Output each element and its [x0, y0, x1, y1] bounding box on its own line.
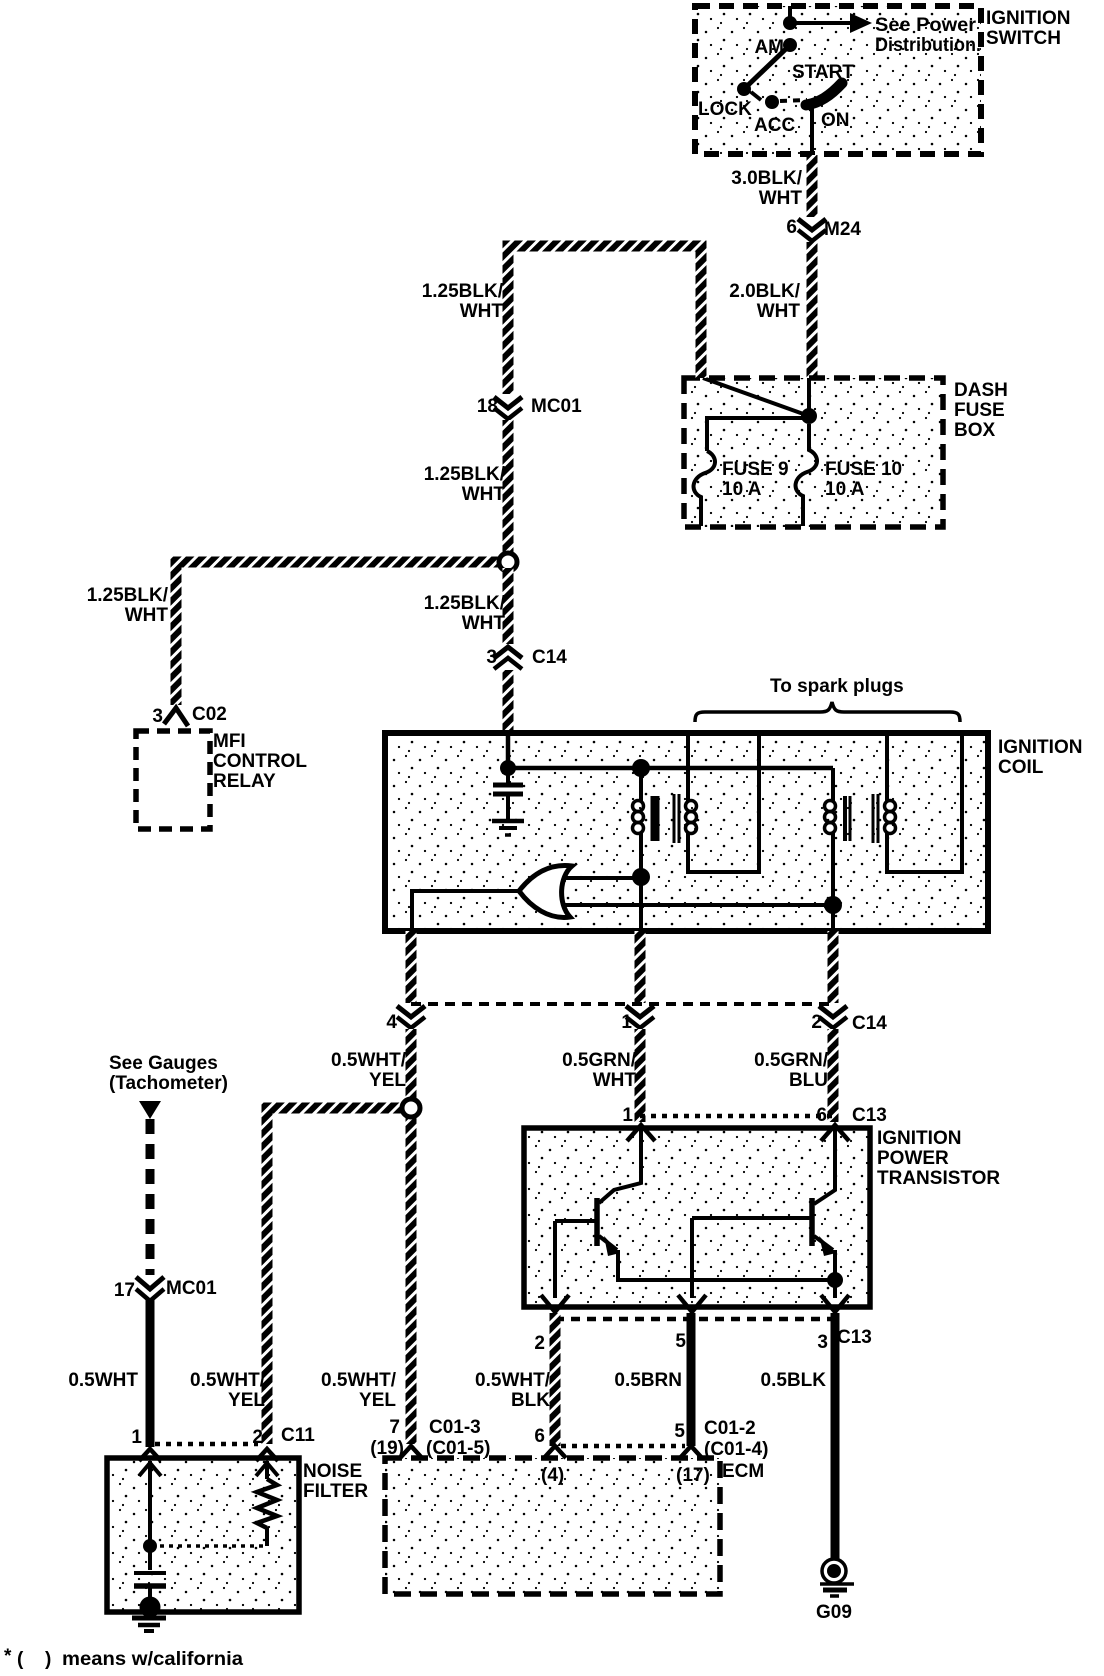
pin 1 arrow into box	[627, 1125, 655, 1141]
wire 0.5GRN/WHT	[635, 1029, 646, 1122]
svg-text:WHT: WHT	[125, 605, 169, 626]
svg-text:1.25BLK/: 1.25BLK/	[424, 593, 506, 614]
wire 3.0BLK/WHT	[807, 155, 818, 217]
wire 0.5WHT	[146, 1300, 155, 1447]
svg-text:IGNITION: IGNITION	[986, 8, 1070, 29]
wire pin 2 base lead	[553, 1221, 557, 1298]
pin 2 arrow out of box	[541, 1295, 569, 1312]
connector MC01 pin 17	[136, 1277, 164, 1289]
svg-text:C01-2: C01-2	[704, 1418, 756, 1439]
connector MC01 pin 18	[494, 397, 522, 408]
wire dotted ECM row	[561, 1444, 685, 1449]
svg-text:(: (	[17, 1649, 24, 1670]
svg-text:SWITCH: SWITCH	[986, 28, 1061, 49]
transistor Q1 base bar	[594, 1198, 600, 1246]
svg-text:0.5GRN/: 0.5GRN/	[562, 1050, 637, 1071]
svg-text:C02: C02	[192, 704, 227, 725]
svg-text:RELAY: RELAY	[213, 771, 276, 792]
svg-text:3: 3	[486, 647, 497, 668]
wire feed diagonal inside fuse box	[703, 378, 809, 416]
pin 5 arrow out of box	[678, 1295, 706, 1312]
connector C14 pin 1	[626, 1006, 654, 1017]
wire B+ into coil	[506, 734, 511, 768]
svg-text:WHT: WHT	[462, 613, 506, 634]
capacitor filter	[148, 1546, 152, 1570]
svg-text:1.25BLK/: 1.25BLK/	[422, 281, 504, 302]
svg-text:6: 6	[534, 1426, 545, 1447]
svg-text:YEL: YEL	[359, 1390, 396, 1411]
svg-text:WHT: WHT	[759, 188, 803, 209]
wire 1.25BLK/WHT main run from fuse box	[508, 246, 701, 394]
svg-text:POWER: POWER	[877, 1148, 949, 1169]
wire 0.5BLK	[831, 1313, 840, 1560]
svg-text:C01-3: C01-3	[429, 1417, 481, 1438]
connector C11 pin 1	[139, 1449, 161, 1461]
node emitter junction	[827, 1272, 843, 1288]
svg-text:0.5WHT/: 0.5WHT/	[475, 1370, 551, 1391]
ground noise filter	[132, 1616, 166, 1621]
ignition coil box	[385, 733, 988, 931]
ignition power transistor box	[524, 1128, 870, 1307]
svg-text:3: 3	[817, 1332, 828, 1353]
svg-text:0.5WHT/: 0.5WHT/	[190, 1370, 266, 1391]
svg-text:3: 3	[152, 706, 163, 727]
wire to power distribution	[790, 21, 850, 25]
svg-text:6: 6	[786, 217, 797, 238]
svg-text:See Power: See Power	[875, 15, 977, 36]
wire Q2 base	[692, 1216, 810, 1220]
svg-text:10 A: 10 A	[825, 479, 865, 500]
svg-text:ECM: ECM	[722, 1461, 764, 1482]
svg-text:BOX: BOX	[954, 420, 996, 441]
pin 6 arrow into box	[821, 1125, 849, 1141]
wire branch to noise filter	[267, 1108, 406, 1444]
transformer T2 primary winding	[831, 768, 835, 801]
node ACC terminal	[765, 95, 779, 109]
node ground blob	[140, 1597, 161, 1618]
svg-text:TRANSISTOR: TRANSISTOR	[877, 1168, 1000, 1189]
svg-text:(C01-4): (C01-4)	[704, 1439, 768, 1460]
ground condenser	[492, 819, 524, 824]
svg-text:1.25BLK/: 1.25BLK/	[424, 464, 506, 485]
svg-text:Distribution.: Distribution.	[875, 35, 981, 56]
wire into ignition coil	[503, 670, 514, 734]
wire from M24 into box	[807, 378, 811, 416]
wire 1.25BLK/WHT to junction	[503, 420, 514, 557]
wire 0.5WHT/BLK	[550, 1313, 561, 1446]
ground G09	[822, 1559, 846, 1583]
svg-text:(Tachometer): (Tachometer)	[109, 1073, 228, 1094]
connector C14 pin 4	[397, 1006, 425, 1017]
svg-text:To spark plugs: To spark plugs	[770, 676, 904, 697]
svg-text:YEL: YEL	[228, 1390, 265, 1411]
transistor Q1 emitter	[599, 1236, 617, 1250]
svg-text:1: 1	[131, 1427, 142, 1448]
wire Q1 collector	[599, 1130, 641, 1203]
svg-text:C11: C11	[281, 1425, 315, 1446]
svg-text:means w/california: means w/california	[62, 1649, 243, 1670]
wire switch wiper AM-LOCK	[744, 45, 790, 89]
svg-text:1: 1	[621, 1012, 632, 1033]
fuse FUSE 9 10A	[694, 451, 715, 526]
transformer T2 secondary winding	[885, 733, 889, 801]
svg-text:(17): (17)	[676, 1465, 710, 1486]
svg-text:C14: C14	[852, 1013, 887, 1034]
connector ECM pin 7 (19) C01-3	[400, 1446, 422, 1458]
wire START-ON contact arc	[806, 83, 842, 105]
capacitor condenser	[506, 768, 510, 783]
svg-text:WHT: WHT	[462, 484, 506, 505]
connector C14 pin 2	[819, 1006, 847, 1017]
MFI control relay box	[136, 731, 210, 829]
svg-text:0.5WHT/: 0.5WHT/	[321, 1370, 397, 1391]
svg-text:YEL: YEL	[369, 1070, 406, 1091]
svg-text:0.5BLK: 0.5BLK	[761, 1370, 827, 1391]
wire lock detent tick	[751, 92, 761, 100]
svg-text:WHT: WHT	[757, 301, 801, 322]
svg-text:(19): (19)	[370, 1438, 404, 1459]
connector M24 pin 6	[798, 219, 826, 230]
wire T1 primary to coil pin 1	[639, 877, 643, 931]
svg-text:LOCK: LOCK	[698, 99, 752, 120]
svg-text:COIL: COIL	[998, 757, 1044, 778]
rotor crescent	[519, 865, 572, 917]
svg-text:18: 18	[477, 396, 498, 417]
node filter junction	[143, 1539, 157, 1553]
connector ECM pin 5 (17) C01-2	[680, 1446, 702, 1458]
svg-text:0.5GRN/: 0.5GRN/	[754, 1050, 829, 1071]
resistor filter	[257, 1479, 277, 1528]
svg-text:5: 5	[675, 1331, 686, 1352]
svg-text:10 A: 10 A	[722, 479, 762, 500]
ignition switch box	[695, 6, 981, 154]
transistor Q2 base bar	[809, 1198, 815, 1246]
svg-text:FILTER: FILTER	[303, 1481, 368, 1502]
svg-text:NOISE: NOISE	[303, 1461, 362, 1482]
svg-text:17: 17	[114, 1280, 135, 1301]
connector ECM pin 6 (4)	[544, 1446, 566, 1458]
wire coil pin 4 lead	[406, 931, 417, 1003]
svg-text:MC01: MC01	[166, 1278, 217, 1299]
svg-text:WHT: WHT	[460, 301, 504, 322]
svg-text:WHT: WHT	[593, 1070, 637, 1091]
svg-text:2: 2	[534, 1333, 545, 1354]
svg-text:0.5BRN: 0.5BRN	[614, 1370, 682, 1391]
wire coil pin 2 lead	[828, 931, 839, 1003]
wire B+ bus	[508, 766, 833, 771]
svg-text:): )	[45, 1649, 51, 1670]
svg-text:G09: G09	[816, 1602, 852, 1623]
wire 2.0BLK/WHT	[807, 242, 818, 378]
node battery junction	[783, 16, 797, 30]
wire branch to MFI relay	[176, 562, 503, 705]
svg-text:MFI: MFI	[213, 731, 246, 752]
connector C14 pin 3	[494, 647, 522, 658]
svg-text:5: 5	[674, 1421, 685, 1442]
arrow from gauges	[139, 1101, 161, 1119]
svg-text:*: *	[4, 1646, 12, 1667]
wire 0.5WHT/YEL from pin 4	[406, 1029, 417, 1444]
pin 3 arrow out of box	[821, 1295, 849, 1312]
brace to spark plugs	[695, 702, 960, 722]
svg-text:FUSE 9: FUSE 9	[722, 459, 789, 480]
svg-text:2.0BLK/: 2.0BLK/	[729, 281, 800, 302]
wire 0.5GRN/BLU	[828, 1029, 839, 1122]
svg-text:FUSE: FUSE	[954, 400, 1005, 421]
svg-text:1: 1	[622, 1105, 633, 1126]
svg-text:MC01: MC01	[531, 396, 582, 417]
wire Q2 collector	[814, 1130, 835, 1204]
connector C11 pin 2	[256, 1449, 278, 1461]
node T2 primary bottom	[824, 896, 842, 914]
svg-text:2: 2	[811, 1012, 822, 1033]
wire dashed tachometer signal	[146, 1119, 155, 1275]
transformer T2 core	[843, 796, 847, 841]
svg-text:C13: C13	[837, 1327, 872, 1348]
wire pin 3 lead	[833, 1280, 837, 1298]
svg-text:START: START	[792, 62, 854, 83]
wire dashed C13 connector row bottom	[555, 1317, 835, 1322]
wire 1.25BLK/WHT to C14	[503, 568, 514, 644]
node fuse feed junction	[801, 408, 817, 424]
wire pin2 internal	[265, 1461, 269, 1479]
svg-text:See Gauges: See Gauges	[109, 1053, 218, 1074]
svg-text:7: 7	[389, 1417, 400, 1438]
wire rotor pickup to T2	[560, 903, 833, 907]
svg-text:ON: ON	[821, 110, 850, 131]
svg-text:FUSE 10: FUSE 10	[825, 459, 902, 480]
node LOCK terminal	[737, 82, 751, 96]
node T1 primary bottom	[632, 868, 650, 886]
svg-text:0.5WHT: 0.5WHT	[68, 1370, 138, 1391]
pin 2 arrow inside	[256, 1463, 278, 1476]
wire T2 primary to coil pin 2	[831, 905, 835, 931]
node junction ring	[499, 553, 517, 571]
connector C02 pin 3	[164, 708, 188, 726]
node AM terminal	[783, 38, 797, 52]
wire dotted C13 connector row top	[640, 1114, 833, 1119]
wire dashed ACC link	[780, 100, 807, 101]
node T1 primary top	[632, 759, 650, 777]
transformer T1 core	[651, 796, 660, 841]
wire pin 5 base lead	[690, 1218, 694, 1298]
transistor Q2 emitter	[814, 1236, 833, 1250]
svg-text:C13: C13	[852, 1105, 887, 1126]
wire coil pin 1 lead	[635, 931, 646, 1003]
node coil B+	[500, 760, 516, 776]
svg-text:6: 6	[816, 1105, 827, 1126]
dash fuse box	[684, 378, 943, 527]
wire battery feed into switch	[788, 6, 792, 23]
svg-text:CONTROL: CONTROL	[213, 751, 307, 772]
wire to fuse 9	[707, 418, 809, 451]
wire dotted C11 row	[155, 1442, 258, 1447]
wire pin1 internal	[148, 1461, 152, 1546]
svg-text:DASH: DASH	[954, 380, 1008, 401]
svg-text:M24: M24	[824, 219, 861, 240]
svg-text:(C01-5): (C01-5)	[426, 1438, 490, 1459]
svg-text:IGNITION: IGNITION	[877, 1128, 961, 1149]
wire rotor pickup to T1	[560, 876, 641, 880]
svg-text:4: 4	[386, 1012, 397, 1033]
svg-text:0.5WHT/: 0.5WHT/	[331, 1050, 407, 1071]
wire dashed C14 connector row	[411, 1002, 833, 1006]
transformer T1 primary winding	[639, 768, 643, 801]
wire Q1 base	[555, 1219, 595, 1223]
svg-text:IGNITION: IGNITION	[998, 737, 1082, 758]
ECM box	[385, 1458, 720, 1594]
wire dotted resistor to junction	[156, 1544, 263, 1548]
node junction ring tach branch	[402, 1099, 420, 1117]
transformer T1 secondary winding	[686, 733, 690, 801]
svg-text:BLK: BLK	[511, 1390, 550, 1411]
fuse FUSE 10 10A	[796, 424, 817, 526]
wire ON output	[810, 106, 814, 156]
svg-text:BLU: BLU	[789, 1070, 828, 1091]
noise filter box	[107, 1458, 299, 1612]
svg-text:1.25BLK/: 1.25BLK/	[87, 585, 169, 606]
svg-text:ACC: ACC	[754, 115, 795, 136]
svg-text:(4): (4)	[541, 1465, 564, 1486]
wire 0.5BRN	[687, 1313, 696, 1446]
svg-text:3.0BLK/: 3.0BLK/	[731, 168, 802, 189]
pin 1 arrow inside	[139, 1463, 161, 1476]
wire rotor to coil pin 4	[412, 891, 519, 931]
svg-text:C14: C14	[532, 647, 567, 668]
